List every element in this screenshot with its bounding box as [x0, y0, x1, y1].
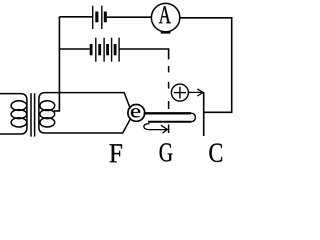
- battery B1 cell1 short thick plate: [95, 12, 98, 23]
- transformer T1 secondary loop 2: [40, 110, 55, 119]
- transformer T1 core line 1: [30, 93, 32, 136]
- wire top branch left segment: [59, 16, 92, 18]
- plus sign horizontal: [174, 92, 186, 94]
- electron path arrow body: [144, 124, 166, 130]
- grid capsule bottom edge: [148, 121, 191, 123]
- label F: [110, 144, 122, 162]
- wire battery B1 to ammeter: [107, 16, 152, 18]
- battery B2 cell1 short thick plate: [90, 44, 93, 55]
- dashed bias line segment 4: [168, 125, 170, 134]
- ammeter A1 bottom tick: [161, 31, 171, 33]
- transformer T1 secondary outer lead path with funnel to cathode: [39, 93, 130, 133]
- grid capsule right rounded end: [191, 113, 195, 122]
- dashed bias line segment 1: [168, 66, 170, 73]
- wire left vertical with center tap: [54, 17, 60, 111]
- transformer T1 core line 2: [34, 93, 36, 136]
- battery B1 cell2 long plate: [101, 6, 103, 29]
- battery B2 cell4 short thick plate: [114, 44, 117, 55]
- battery B1 cell2 short thick plate: [104, 12, 107, 23]
- electron source circle: [128, 105, 145, 122]
- electron path arrowhead: [161, 125, 168, 133]
- transformer T1 secondary loop 1: [40, 101, 55, 111]
- plus terminal circle: [171, 84, 188, 101]
- plus sign vertical: [179, 87, 181, 99]
- transformer T1 primary outer lead path: [0, 94, 27, 134]
- grid capsule top edge: [144, 112, 191, 114]
- battery B2 cell3 short thick plate: [106, 44, 109, 55]
- wire second branch left segment: [59, 48, 89, 50]
- transformer T1 primary loop 1: [11, 101, 27, 111]
- wire battery B2 to corner with short drop: [119, 49, 168, 59]
- battery B2 cell1 long plate: [95, 38, 97, 62]
- ammeter A1 circle: [151, 3, 179, 31]
- battery B2 cell3 long plate: [111, 38, 113, 62]
- transformer T1 primary loop 3: [11, 118, 27, 127]
- battery B2 cell2 long plate: [103, 38, 105, 62]
- arrow from plus circle to plate: [188, 91, 202, 93]
- transformer T1 secondary loop 3: [40, 118, 55, 127]
- electron source letter e: [131, 108, 140, 117]
- transformer T1 primary loop 2: [11, 110, 27, 119]
- label G: [160, 143, 173, 161]
- battery B2 cell4 long plate: [118, 38, 120, 62]
- ammeter A1 letter A: [159, 6, 171, 23]
- wire ammeter to top-right corner and down to node: [180, 18, 232, 113]
- battery B2 cell2 short thick plate: [98, 44, 101, 55]
- dashed bias line segment 3: [168, 101, 170, 109]
- label C: [209, 144, 222, 163]
- arrowhead of plus arrow: [197, 89, 203, 96]
- plate C lead vertical: [203, 92, 205, 136]
- battery B1 cell1 long plate: [92, 6, 94, 29]
- dashed bias line segment 2: [168, 82, 170, 89]
